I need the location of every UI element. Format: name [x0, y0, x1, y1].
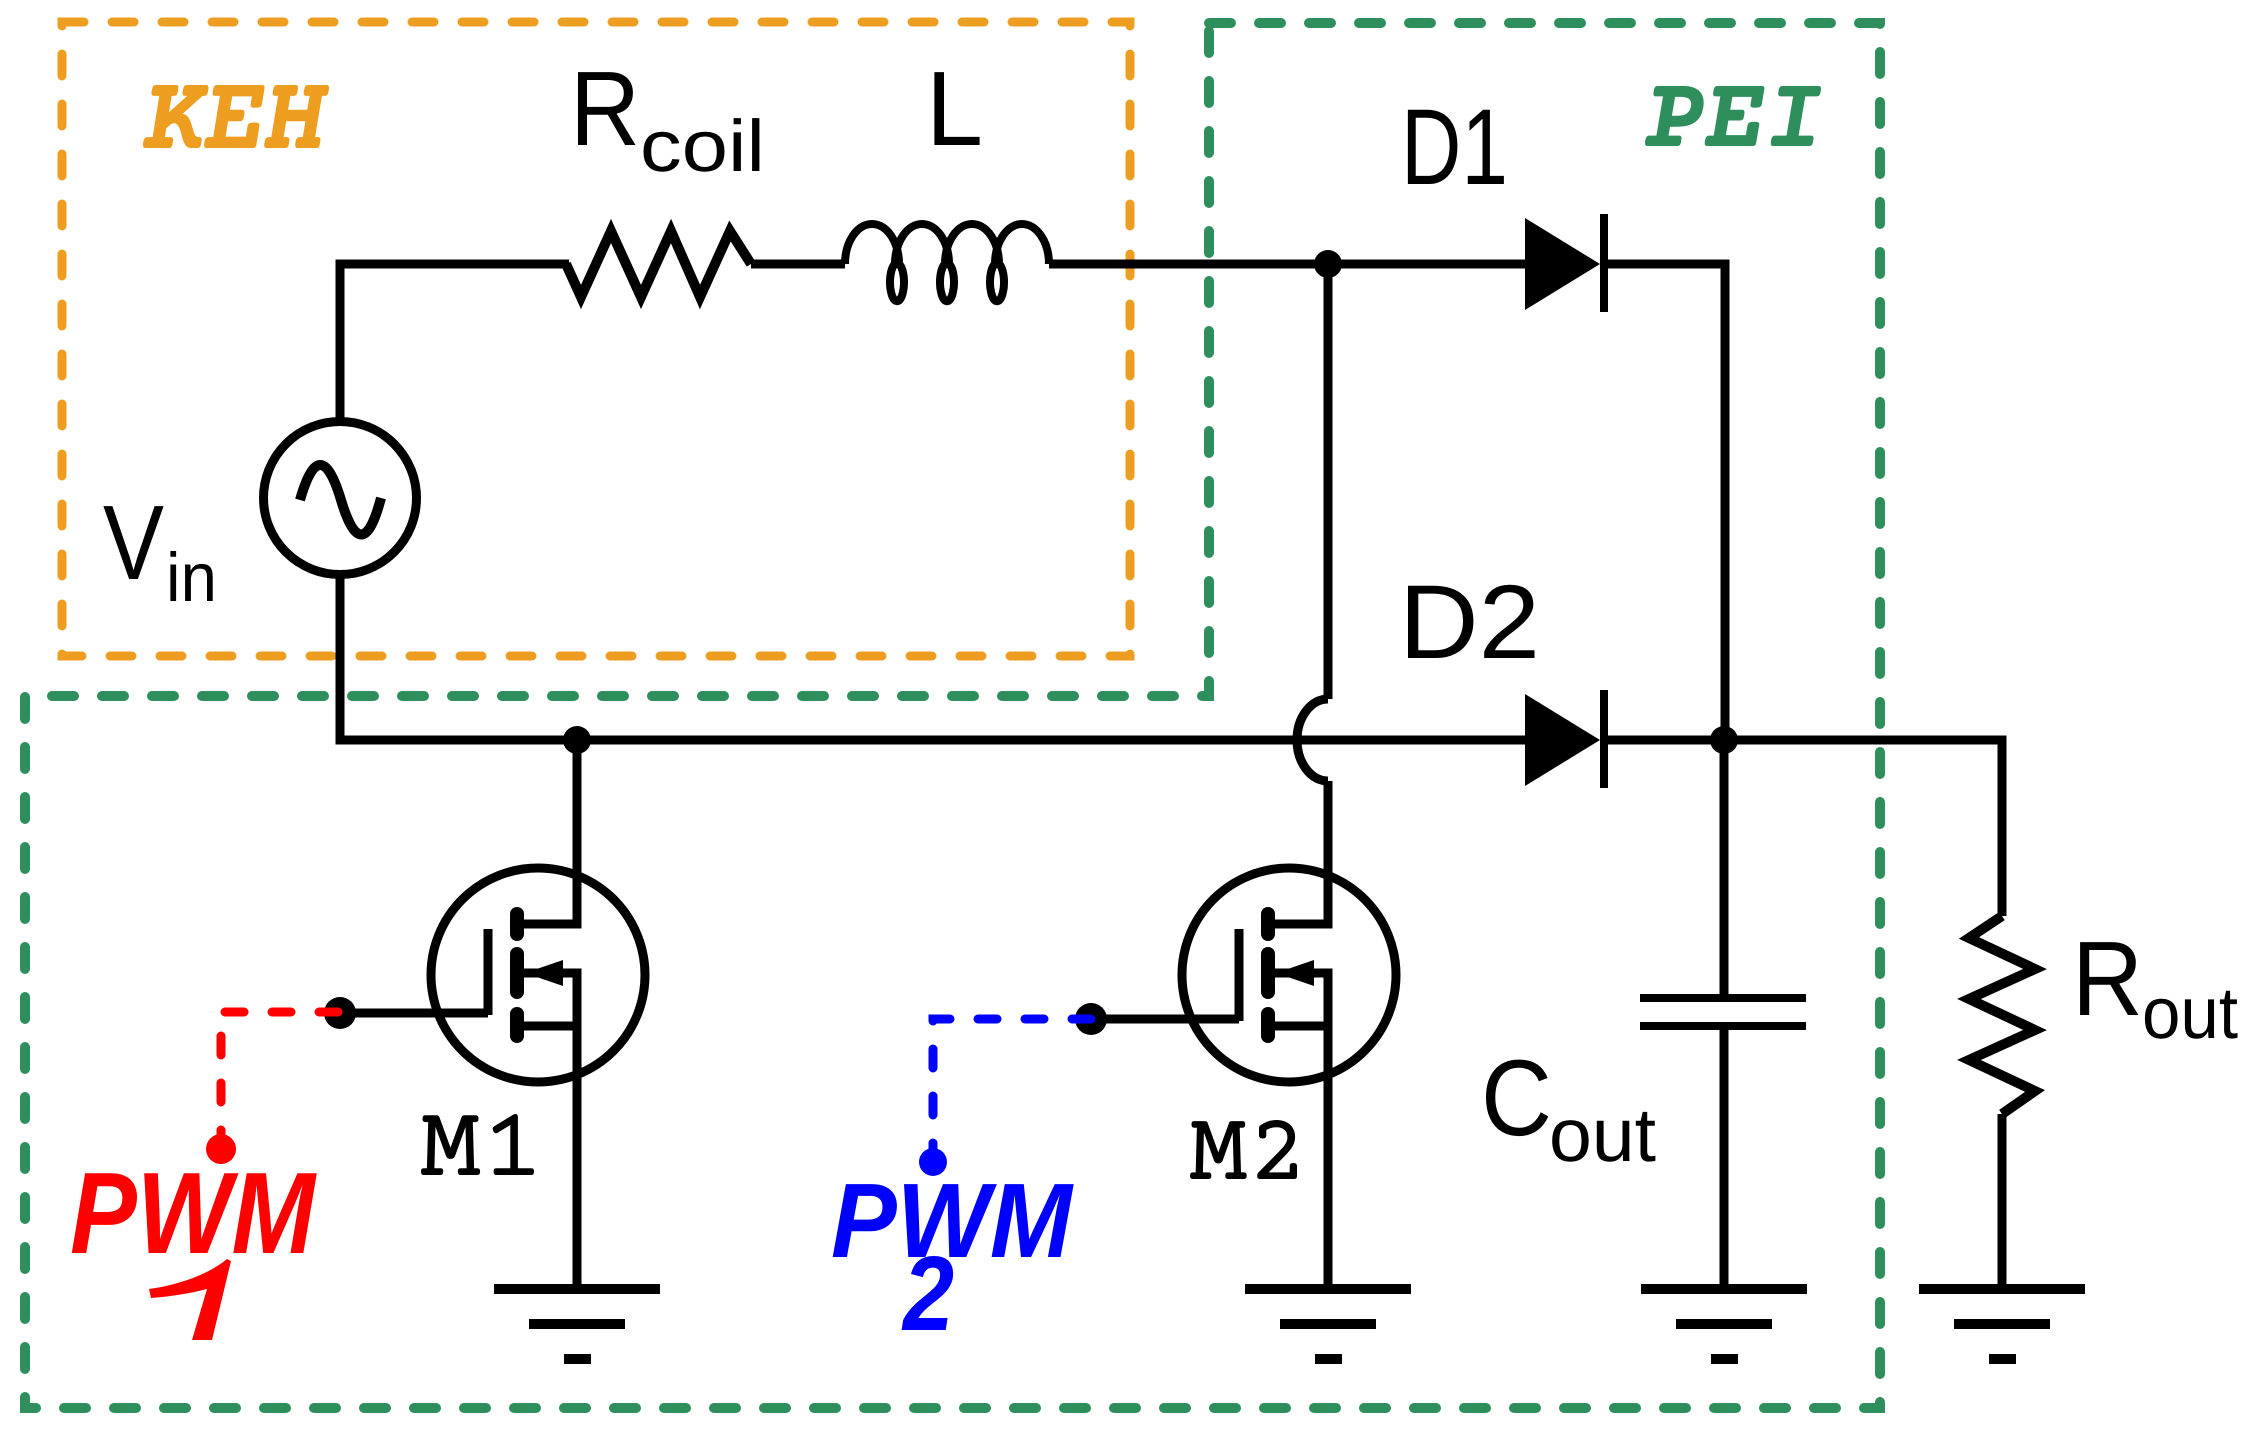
wire: node B down to M1 drain	[573, 740, 582, 924]
node C	[1710, 726, 1738, 754]
PEI box	[25, 23, 1880, 1408]
M2 gate dot	[1075, 1003, 1107, 1035]
node B	[563, 726, 591, 754]
PEI label	[1645, 86, 1821, 146]
PWM2 dashed wire	[933, 1019, 1091, 1162]
ground (M2)	[1245, 1289, 1411, 1359]
PWM2 label	[833, 1184, 1074, 1257]
M2 label	[1190, 1120, 1297, 1179]
ground (Rout)	[1919, 1289, 2085, 1359]
Rout label	[2080, 942, 2138, 1015]
capacitor Cout	[1640, 998, 1806, 1026]
wire: Vin top to resistor	[340, 264, 569, 425]
wire: Vin bottom to D2 anode	[340, 570, 1525, 740]
diode D2	[1525, 694, 1600, 786]
Vin label	[103, 506, 163, 579]
M1 label	[421, 1114, 534, 1175]
transistor M1	[340, 868, 645, 1082]
inductor L	[845, 224, 1049, 301]
KEH label	[143, 85, 329, 148]
L label	[934, 72, 979, 145]
wire: M1 source to ground	[573, 1026, 582, 1289]
wire: node A down to hop	[1324, 264, 1333, 699]
ground (Cout)	[1641, 1289, 1807, 1359]
wire: Cout to ground	[1720, 1026, 1729, 1289]
PWM1 dashed wire	[221, 1012, 340, 1149]
diode D1	[1525, 218, 1600, 310]
resistor Rcoil	[566, 231, 751, 297]
PWM2 dot	[919, 1148, 947, 1176]
node A	[1314, 250, 1342, 278]
sine wave	[300, 465, 381, 535]
D1 label	[1408, 110, 1504, 184]
wire: node C down to Cout	[1720, 740, 1729, 998]
PWM1 label	[72, 1173, 317, 1253]
resistor Rout	[1969, 916, 2035, 1114]
wire: hop to M2 drain	[1324, 781, 1333, 924]
wire: D1 cathode to right corner, down to node C	[1608, 264, 1725, 740]
ground (M1)	[494, 1289, 660, 1359]
Cout label	[1486, 1060, 1548, 1137]
wire: Rout to ground	[1998, 1114, 2007, 1289]
M1 gate dot	[324, 997, 356, 1029]
PWM1 dot	[206, 1134, 236, 1164]
voltage source Vin	[264, 422, 417, 575]
D2 label	[1408, 585, 1535, 658]
wire: D2 cathode to Rout corner	[1608, 740, 2002, 916]
KEH box	[62, 22, 1130, 656]
wire: M2 source to ground	[1324, 1026, 1333, 1289]
wire hop	[1297, 699, 1328, 781]
Rcoil label	[578, 72, 636, 145]
wire: inductor to D1	[1049, 260, 1525, 269]
transistor M2	[1091, 868, 1396, 1082]
